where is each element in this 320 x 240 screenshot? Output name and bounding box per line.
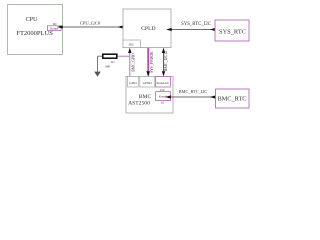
svg-text:SEL: SEL [129, 43, 135, 47]
svg-text:CPLD: CPLD [141, 26, 156, 32]
svg-text:Kernel: Kernel [50, 27, 58, 31]
svg-text:Kernel-I2C: Kernel-I2C [157, 82, 170, 85]
svg-text:SYS_RTC_I2C: SYS_RTC_I2C [181, 22, 211, 27]
svg-text:BMC_I2C12: BMC_I2C12 [164, 51, 168, 71]
svg-text:CPU_I2C0: CPU_I2C0 [80, 21, 101, 26]
svg-text:Kernel: Kernel [159, 94, 167, 98]
svg-text:CPU: CPU [26, 17, 38, 23]
svg-text:BMC_RTC_I2C: BMC_RTC_I2C [179, 89, 208, 94]
svg-text:R1: R1 [111, 60, 115, 64]
svg-text:SYS_RTC: SYS_RTC [219, 28, 246, 35]
svg-text:SYS_PWROK: SYS_PWROK [150, 51, 154, 73]
svg-text:BMC_RTC: BMC_RTC [217, 96, 246, 103]
svg-text:AST2500: AST2500 [128, 100, 150, 106]
svg-text:04R: 04R [105, 64, 110, 68]
svg-text:GPIO: GPIO [129, 81, 137, 85]
svg-text:L0: L0 [161, 101, 165, 105]
svg-text:GPIO2: GPIO2 [143, 81, 152, 85]
svg-text:BMC: BMC [139, 94, 152, 100]
svg-text:BMC_GPIO: BMC_GPIO [132, 53, 136, 72]
